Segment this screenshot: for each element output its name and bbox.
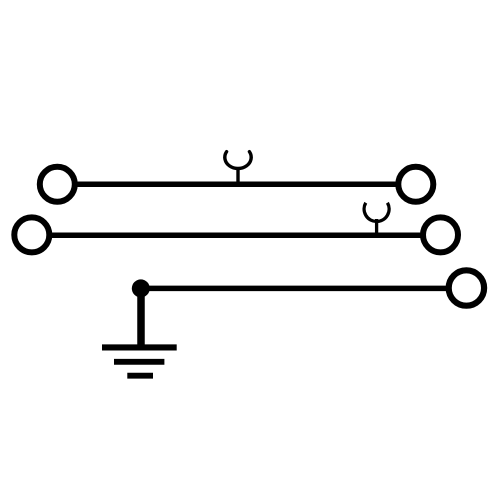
terminal circle level 2 left <box>14 217 49 252</box>
terminal circle level 1 left <box>40 167 75 202</box>
test socket stem (level 2) <box>375 219 378 235</box>
wire level 2 (middle horizontal conductor) <box>34 232 438 238</box>
test socket stem (level 1) <box>236 167 239 184</box>
junction node (level 3 to earth) <box>132 279 150 297</box>
terminal circle level 2 right <box>423 217 458 252</box>
ground symbol bar 3 <box>127 373 153 379</box>
test socket arc (level 1) <box>225 152 251 169</box>
wire level 1 (top horizontal conductor) <box>60 182 414 188</box>
ground symbol bar 2 <box>114 359 164 365</box>
terminal circle level 3 right <box>449 270 484 305</box>
wire level 3 (bottom horizontal conductor, PE) <box>141 286 447 292</box>
terminal circle level 1 right <box>398 167 433 202</box>
earth connection stem wire <box>137 288 145 347</box>
ground symbol bar 1 <box>102 344 177 350</box>
test socket arc (level 2) <box>364 203 389 222</box>
